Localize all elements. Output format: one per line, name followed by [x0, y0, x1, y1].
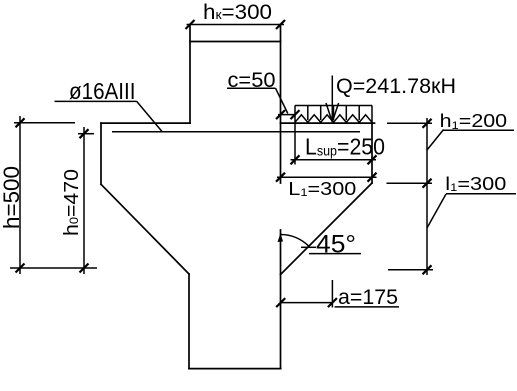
dimension L1=300 ticks [276, 173, 377, 182]
column section cut line [190, 41, 281, 43]
l1=300 underline [446, 193, 516, 195]
c=50 underline, leader and gap dimension line [227, 88, 295, 114]
column bottom cut line [189, 368, 281, 370]
svg-text:Q=241.78кН: Q=241.78кН [336, 75, 456, 98]
corbel 45-degree bottom slope [281, 183, 373, 275]
load resultant arrow Q [326, 76, 339, 123]
dimension hk=300 line [187, 24, 285, 26]
right dimension chain line with extensions and leaders [387, 118, 447, 275]
45-degree arc arrowhead [278, 233, 284, 242]
c=50 dimension ticks [276, 110, 300, 119]
rebar label underline and leader [55, 101, 163, 131]
right dimension chain ticks [423, 119, 432, 274]
svg-text:h1=200: h1=200 [440, 111, 508, 132]
svg-text:L1=300: L1=300 [288, 178, 356, 199]
svg-text:hк=300: hк=300 [203, 1, 272, 24]
dimension L1=300 line [277, 176, 377, 178]
svg-text:ø16AIII: ø16AIII [69, 78, 136, 104]
reinforcement bar Ø16AIII [112, 131, 360, 133]
dimension h=500 line and extensions [10, 116, 97, 274]
svg-text:h=500: h=500 [0, 166, 24, 229]
svg-text:h0=470: h0=470 [61, 169, 83, 236]
dimension h=500 ticks [16, 118, 25, 272]
corbel outer edge [371, 123, 373, 183]
column lower right face [280, 230, 282, 369]
dimension a=175 line and extension [281, 280, 333, 308]
left haunch 45-degree slope [101, 184, 189, 274]
dimension a=175 ticks [276, 298, 337, 307]
svg-text:a=175: a=175 [338, 285, 398, 309]
a=175 underline [335, 306, 399, 308]
bearing plate with distributed load arrows [295, 106, 372, 124]
corbel top face [281, 122, 375, 124]
left haunch outer edge [100, 123, 102, 184]
dimension Lsup=250 line and extension [291, 123, 377, 164]
45-degree label underline [309, 253, 361, 255]
dimension h0=470 ticks [80, 129, 89, 272]
column right face (shaft edge and extension line through corbel) [280, 25, 282, 184]
column lower shaft left edge [188, 274, 190, 369]
dimension Lsup=250 ticks [291, 155, 377, 164]
column upper shaft left edge [189, 25, 191, 124]
45-degree angle arc with arrow [281, 234, 317, 247]
dimension h0=470 line and extension [78, 127, 94, 274]
left haunch top ledge [101, 122, 190, 124]
dimension hk=300 ticks [186, 20, 286, 29]
h1=200 underline [443, 129, 514, 131]
